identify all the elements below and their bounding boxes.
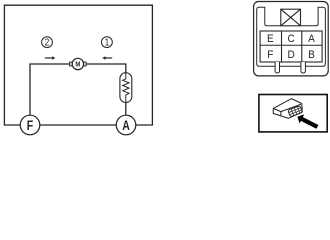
svg-text:M: M xyxy=(75,61,80,69)
svg-text:F: F xyxy=(27,118,33,134)
svg-text:2: 2 xyxy=(45,37,50,48)
svg-text:D: D xyxy=(288,50,295,61)
svg-text:E: E xyxy=(267,34,274,45)
svg-text:A: A xyxy=(122,118,130,134)
svg-text:A: A xyxy=(308,34,315,45)
svg-text:F: F xyxy=(267,50,273,61)
svg-text:1: 1 xyxy=(105,37,110,48)
svg-text:C: C xyxy=(288,34,296,45)
svg-text:B: B xyxy=(308,50,315,61)
